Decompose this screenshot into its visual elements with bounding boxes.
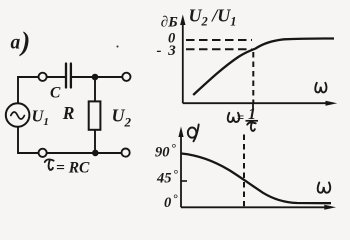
svg-text:- 3: - 3 (157, 43, 177, 59)
svg-text:1: 1 (248, 106, 256, 123)
svg-text:∂Б: ∂Б (161, 15, 178, 31)
svg-text:= RC: = RC (56, 160, 90, 177)
svg-text:U2 /U1: U2 /U1 (189, 6, 237, 29)
svg-text:=: = (237, 110, 244, 125)
svg-text:C: C (50, 85, 61, 102)
svg-text:R: R (62, 103, 75, 123)
